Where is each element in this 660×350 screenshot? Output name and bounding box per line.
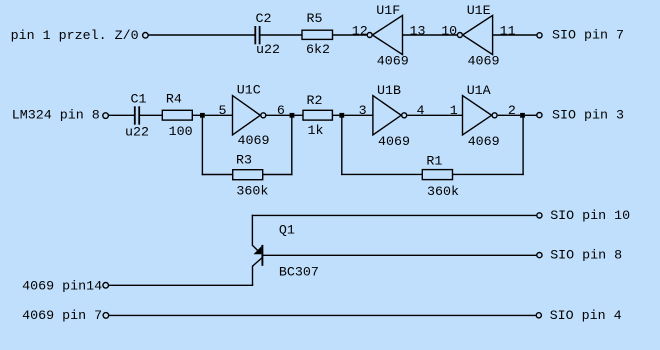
svg-text:U1E: U1E xyxy=(467,4,491,19)
svg-text:360k: 360k xyxy=(236,185,268,200)
svg-text:u22: u22 xyxy=(125,125,149,140)
svg-text:13: 13 xyxy=(410,25,426,40)
capacitor C2 xyxy=(255,12,280,58)
wire xyxy=(332,114,339,116)
wire xyxy=(252,214,537,216)
svg-text:R3: R3 xyxy=(236,154,252,169)
wire xyxy=(202,174,233,176)
svg-text:R2: R2 xyxy=(307,94,323,109)
svg-text:10: 10 xyxy=(441,25,457,40)
svg-text:SIO pin 10: SIO pin 10 xyxy=(550,209,630,224)
svg-text:SIO pin 8: SIO pin 8 xyxy=(550,249,622,264)
svg-text:12: 12 xyxy=(352,25,368,40)
svg-text:4069: 4069 xyxy=(377,55,409,70)
junction node C xyxy=(339,113,344,118)
svg-text:u22: u22 xyxy=(256,43,280,58)
terminal circle: 4069 pin14 xyxy=(103,283,109,289)
wire xyxy=(341,115,343,175)
svg-text:U1B: U1B xyxy=(377,84,401,99)
svg-text:5: 5 xyxy=(219,104,227,119)
inverter U1A xyxy=(463,84,500,150)
svg-text:1k: 1k xyxy=(308,124,324,139)
wire xyxy=(403,34,458,36)
svg-text:360k: 360k xyxy=(427,185,459,200)
svg-text:4069: 4069 xyxy=(468,135,500,150)
svg-text:U1A: U1A xyxy=(467,84,491,99)
wire xyxy=(261,34,303,36)
wire xyxy=(148,34,255,36)
svg-text:SIO pin 4: SIO pin 4 xyxy=(550,309,622,324)
svg-text:LM324 pin 8: LM324 pin 8 xyxy=(12,109,100,124)
wire xyxy=(333,34,368,36)
svg-text:BC307: BC307 xyxy=(279,265,319,280)
svg-text:4069: 4069 xyxy=(238,134,270,149)
svg-text:pin 1 przel. Z/0: pin 1 przel. Z/0 xyxy=(11,29,139,44)
wire xyxy=(294,114,303,116)
junction node B xyxy=(290,113,295,118)
wire xyxy=(201,115,203,175)
resistor R4 xyxy=(162,93,192,140)
svg-text:SIO pin 3: SIO pin 3 xyxy=(552,108,624,123)
wire xyxy=(407,114,462,116)
svg-text:R1: R1 xyxy=(426,154,442,169)
wire xyxy=(522,115,524,175)
wire xyxy=(262,254,536,256)
wire xyxy=(140,114,162,116)
terminal circle: SIO pin 4 xyxy=(536,313,541,318)
svg-text:SIO pin 7: SIO pin 7 xyxy=(552,29,624,44)
terminal circle: 4069 pin 7 xyxy=(103,313,109,319)
wire xyxy=(344,114,373,116)
wire xyxy=(291,115,293,175)
resistor R2 xyxy=(303,94,332,139)
svg-text:11: 11 xyxy=(500,25,516,40)
svg-text:C2: C2 xyxy=(256,12,272,27)
wire xyxy=(109,114,135,116)
terminal circle: SIO pin 3 xyxy=(537,113,542,118)
wire xyxy=(205,114,233,116)
junction node D xyxy=(520,113,525,118)
inverter U1F xyxy=(367,4,409,70)
svg-text:1: 1 xyxy=(450,104,458,119)
inverter U1B xyxy=(373,84,410,150)
svg-text:R5: R5 xyxy=(307,12,323,27)
svg-text:Q1: Q1 xyxy=(279,223,295,238)
junction node A xyxy=(200,113,205,118)
svg-text:100: 100 xyxy=(169,125,193,140)
svg-text:6: 6 xyxy=(277,104,285,119)
svg-text:4069 pin14: 4069 pin14 xyxy=(22,279,102,294)
wire xyxy=(192,114,202,116)
wire xyxy=(453,173,524,175)
wire xyxy=(341,173,422,175)
resistor R5 xyxy=(302,12,333,58)
wire xyxy=(525,114,537,116)
svg-text:U1C: U1C xyxy=(237,84,261,99)
svg-text:U1F: U1F xyxy=(376,4,400,19)
wire xyxy=(109,314,536,316)
terminal circle: SIO pin 10 xyxy=(537,213,542,218)
terminal circle: SIO pin 7 xyxy=(537,33,542,38)
svg-text:4069: 4069 xyxy=(468,55,500,70)
svg-text:4069: 4069 xyxy=(378,135,410,150)
svg-text:6k2: 6k2 xyxy=(306,43,330,58)
wire xyxy=(263,174,293,176)
svg-text:4069 pin 7: 4069 pin 7 xyxy=(22,309,102,324)
terminal circle: pin 1 przel. Z/0 xyxy=(143,33,149,39)
terminal circle: SIO pin 8 xyxy=(537,253,542,258)
transistor Q1 xyxy=(252,215,319,286)
svg-text:3: 3 xyxy=(359,104,367,119)
inverter U1E xyxy=(457,4,499,70)
svg-text:C1: C1 xyxy=(131,93,147,108)
capacitor C1 xyxy=(125,93,149,141)
terminal circle: LM324 pin 8 xyxy=(103,113,109,119)
svg-text:4: 4 xyxy=(417,104,425,119)
wire xyxy=(498,114,520,116)
resistor R3 xyxy=(233,154,269,200)
resistor R1 xyxy=(422,154,459,200)
wire xyxy=(266,114,290,116)
svg-text:R4: R4 xyxy=(166,93,182,108)
inverter U1C xyxy=(233,84,270,150)
svg-text:2: 2 xyxy=(508,104,516,119)
wire xyxy=(493,34,537,36)
wire xyxy=(109,284,254,286)
